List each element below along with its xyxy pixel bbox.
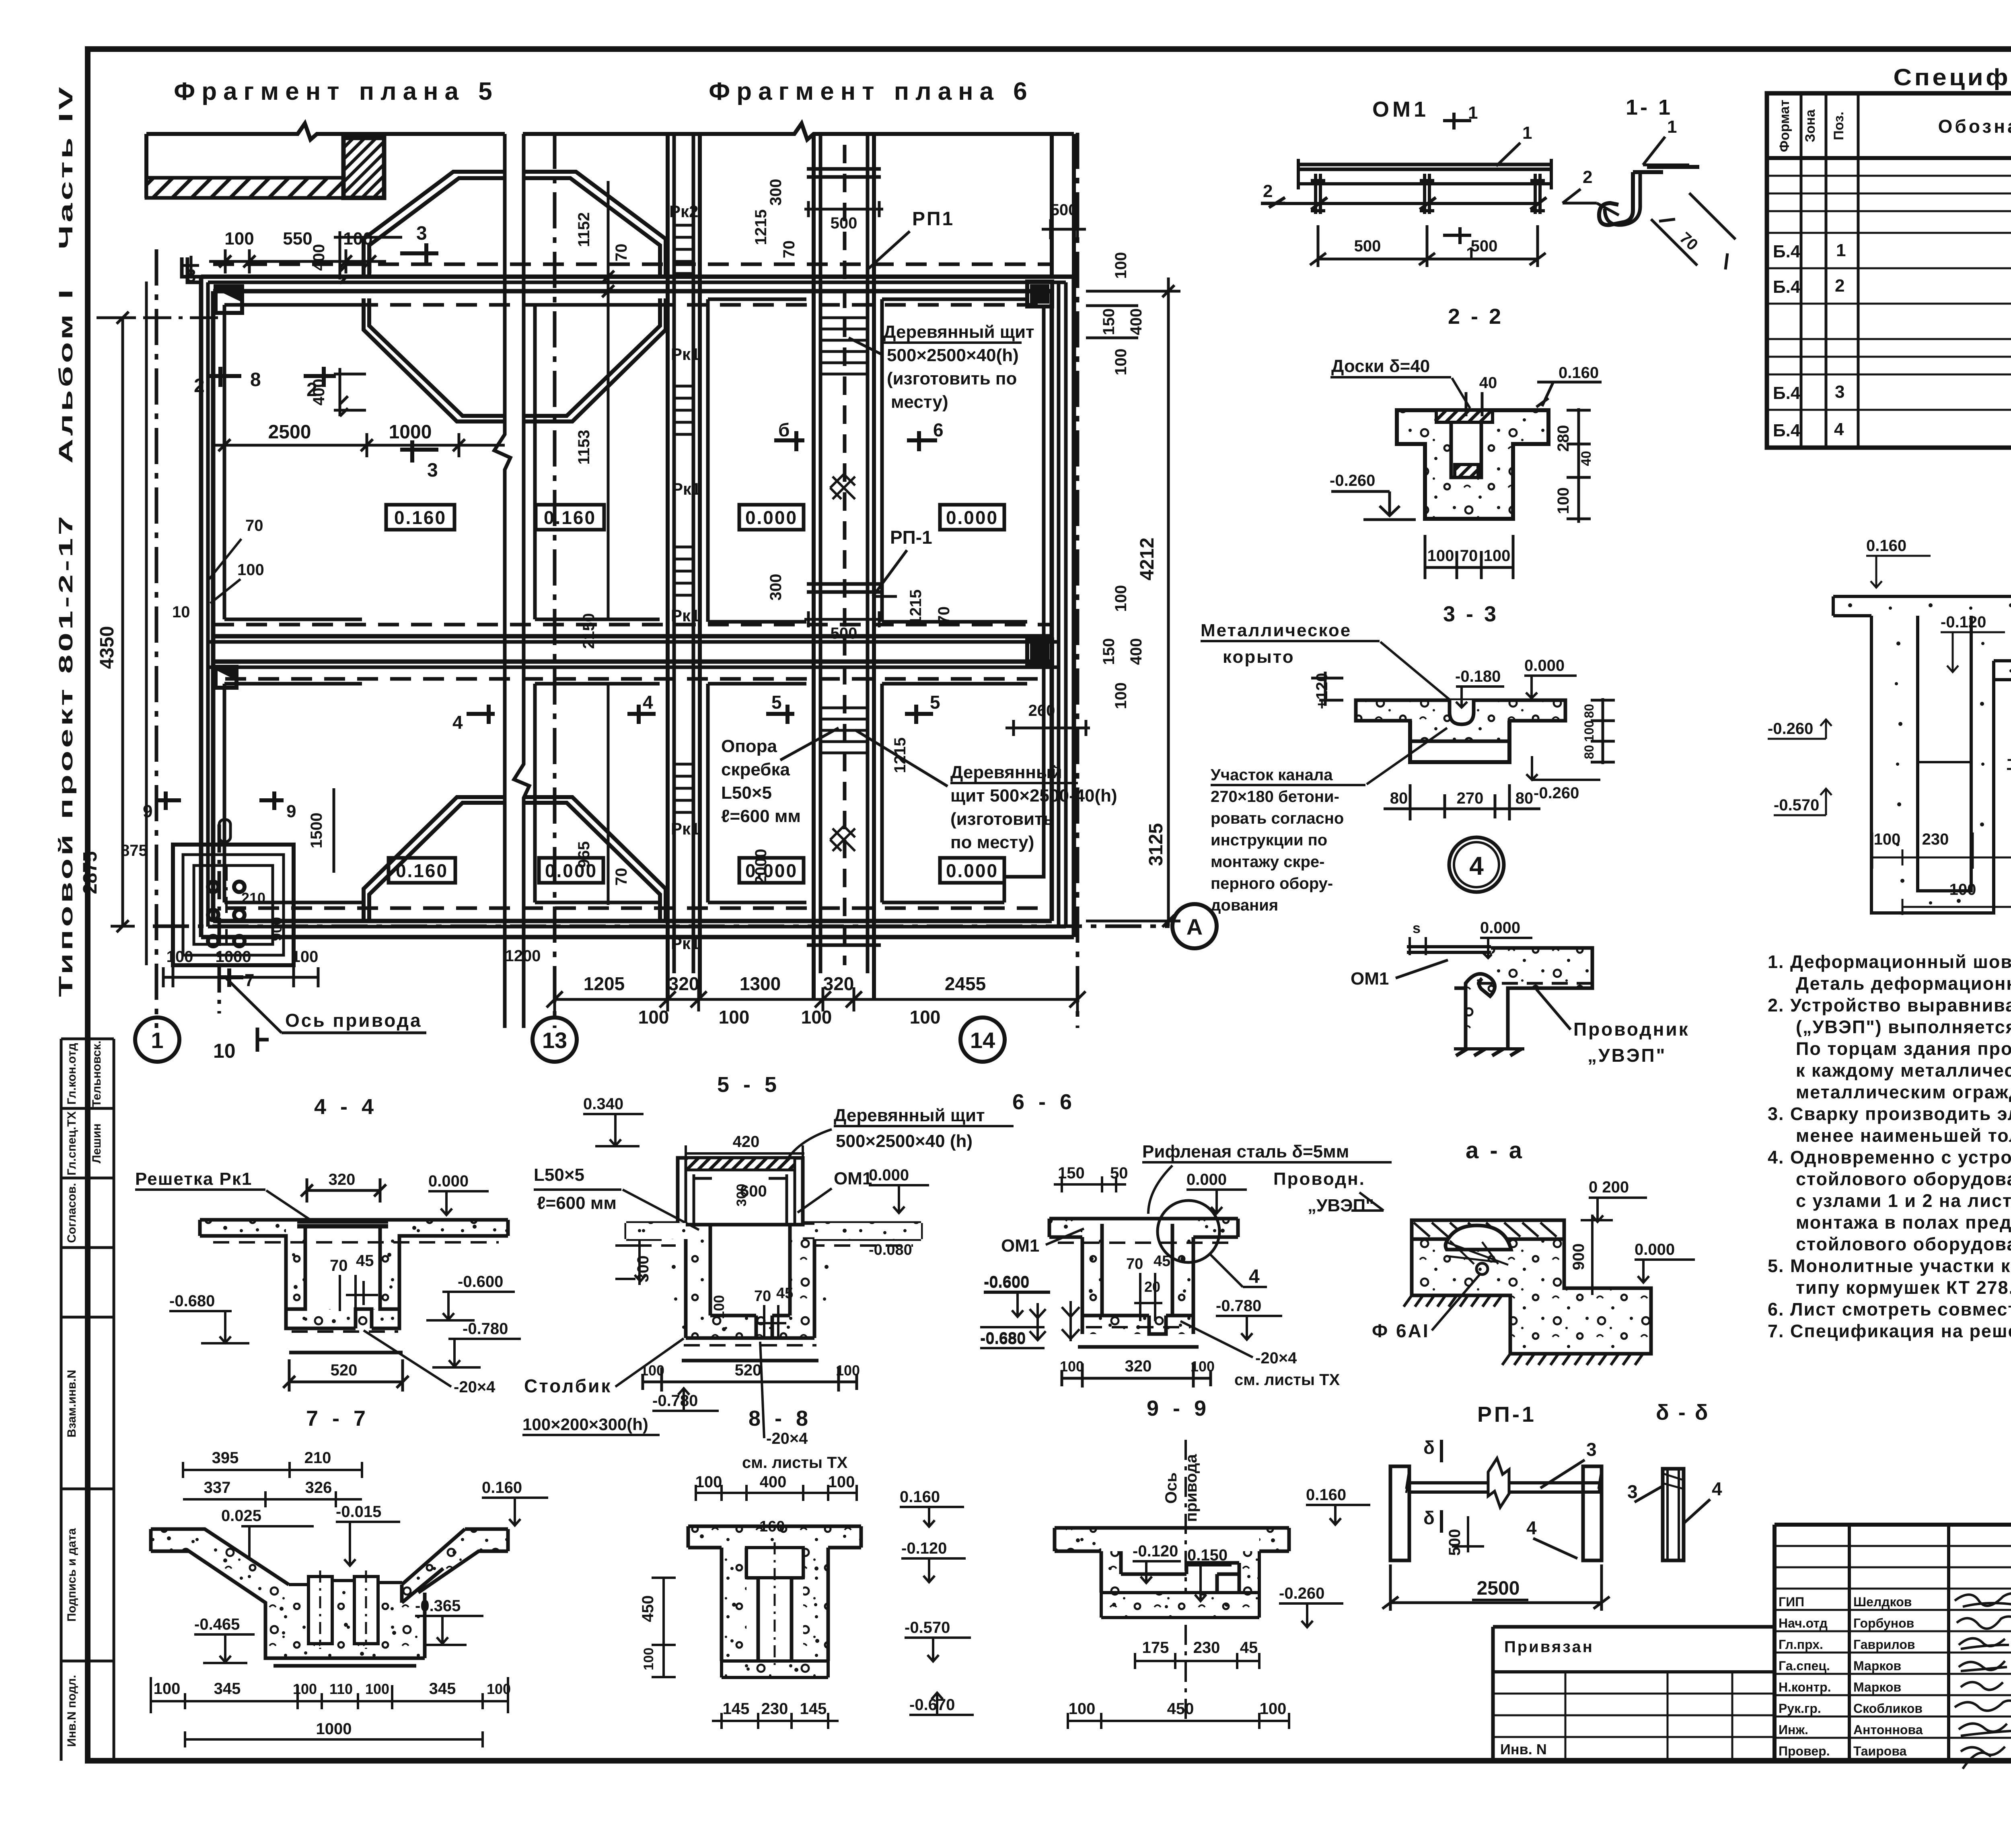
svg-text:Антоннова: Антоннова [1853,1723,1923,1737]
svg-text:2150: 2150 [580,613,598,649]
svg-text:3: 3 [1586,1439,1597,1460]
3-3 bottom dims 80 270 80 [1384,784,1540,820]
svg-text:100: 100 [836,1362,860,1379]
8-8 body [688,1526,861,1677]
svg-text:0 200: 0 200 [1589,1178,1629,1196]
svg-text:по месту): по месту) [950,833,1034,852]
svg-text:Гл.спец.ТХ: Гл.спец.ТХ [65,1111,78,1176]
svg-text:2: 2 [306,379,317,401]
svg-text:L50×5: L50×5 [534,1165,584,1185]
svg-text:160: 160 [759,1518,785,1535]
svg-text:Ось привода: Ось привода [285,1010,422,1031]
svg-text:4212: 4212 [1137,538,1158,581]
svg-text:Привязан: Привязан [1504,1638,1594,1656]
svg-text:б: б [778,419,790,440]
svg-text:Таирова: Таирова [1853,1744,1907,1758]
svg-text:100: 100 [801,1007,832,1028]
4-4 dim 520 [283,1359,409,1392]
svg-text:1153: 1153 [575,430,593,465]
4-4 concrete stipple [200,1220,508,1328]
svg-text:500: 500 [1446,1529,1464,1556]
8-8 top dims [695,1473,855,1491]
svg-text:1: 1 [1836,241,1846,260]
svg-text:Провер.: Провер. [1779,1744,1830,1758]
svg-text:-20×4: -20×4 [1255,1349,1297,1367]
axis A horizontal dash-dot [153,925,1170,928]
section flags 7 [219,968,243,987]
corner pier squares plan6 right [216,282,1052,688]
svg-text:70: 70 [1126,1256,1143,1272]
detail 1-1 hook [1599,167,1699,225]
svg-text:Инв.N подл.: Инв.N подл. [65,1675,78,1747]
svg-text:-0.260: -0.260 [1534,784,1579,802]
svg-text:0.000: 0.000 [946,860,998,881]
signature squiggles [1955,1593,2011,1769]
svg-text:7. Спецификация на решетки Рк1: 7. Спецификация на решетки Рк1 и Рж2 дан… [1768,1321,2011,1341]
7-7 concrete stipple [151,1529,508,1658]
svg-text:175: 175 [1142,1639,1169,1657]
svg-text:2: 2 [1835,276,1844,296]
left vertical of top strip [144,134,148,198]
500 dim top right plan6 [1042,219,1086,239]
drive axis dash-dot plan5 [218,824,221,1013]
RP-1 dim 500 [1452,1516,1484,1552]
svg-text:100: 100 [828,1473,855,1491]
svg-text:δ - δ: δ - δ [1656,1400,1709,1425]
svg-text:(изготовить по: (изготовить по [887,369,1017,389]
top boundary line plan5 [146,123,505,140]
svg-text:100: 100 [1060,1358,1084,1375]
svg-text:0.160: 0.160 [394,507,446,528]
svg-text:4: 4 [1469,851,1484,880]
svg-text:100: 100 [365,1681,389,1697]
wall jog left of plan5 corner [182,257,201,282]
svg-text:-0.780: -0.780 [463,1320,508,1338]
hatched upper wall band [146,178,343,198]
svg-text:8 - 8: 8 - 8 [748,1406,812,1431]
svg-text:2: 2 [1263,181,1273,201]
svg-text:100: 100 [641,1648,656,1671]
svg-text:Марков: Марков [1853,1659,1901,1673]
10-10 floor slab [1833,596,2011,913]
3-3 body [1356,700,1565,762]
svg-text:Марков: Марков [1853,1680,1901,1694]
svg-text:0.000: 0.000 [1635,1241,1675,1258]
feeder trough chutes at top wall plan6 [524,172,666,277]
svg-text:2500: 2500 [268,421,311,443]
svg-text:320: 320 [1125,1357,1152,1375]
svg-text:Доски δ=40: Доски δ=40 [1331,356,1430,376]
4-4 body [200,1220,508,1353]
svg-text:0.160: 0.160 [396,860,448,881]
canal label text [1211,766,1344,914]
svg-text:ОМ1: ОМ1 [1001,1236,1039,1256]
5-5 wooden box [678,1158,803,1225]
svg-text:Тельновск.: Тельновск. [90,1040,103,1107]
svg-text:100: 100 [292,948,319,966]
svg-text:100: 100 [1112,585,1130,612]
svg-text:Рк1: Рк1 [671,606,700,625]
svg-text:3. Сварку производить электрод: 3. Сварку производить электродами Э-42 Г… [1768,1104,2011,1124]
svg-text:1500: 1500 [308,813,325,849]
plan6 break line left edge [514,134,529,1028]
svg-text:-0.570: -0.570 [1774,796,1819,814]
svg-text:100: 100 [640,1362,664,1379]
svg-text:0.160: 0.160 [900,1488,940,1506]
svg-text:монтажу скре-: монтажу скре- [1211,853,1324,871]
svg-text:550: 550 [283,229,312,249]
svg-text:100: 100 [1874,830,1901,848]
svg-text:100: 100 [910,1007,941,1028]
svg-text:типу кормушек КТ 278.70.57: типу кормушек КТ 278.70.57 [1796,1277,2011,1298]
svg-text:900: 900 [1570,1244,1587,1270]
grid circle axis 1 [135,904,1217,1062]
svg-text:5: 5 [771,692,782,713]
10-10 bottom left dims [1874,830,2011,898]
svg-text:-0.680: -0.680 [169,1292,215,1310]
svg-text:ℓ=600 мм: ℓ=600 мм [721,806,801,826]
svg-text:110: 110 [329,1681,353,1697]
svg-text:металлическим ограждениям стой: металлическим ограждениям стойл и к труб… [1796,1082,2011,1102]
top left dimension row 100 550 100 [183,249,386,276]
svg-text:80: 80 [1390,789,1408,807]
svg-text:Инж.: Инж. [1779,1723,1808,1737]
left pit block plan5 bottom [173,820,294,965]
section flags 9 [157,791,284,810]
svg-text:Б.4: Б.4 [1773,277,1801,297]
svg-text:965: 965 [575,841,593,868]
svg-text:ОМ1: ОМ1 [1372,97,1429,121]
spec table grid [1767,93,2011,448]
svg-text:100: 100 [695,1473,722,1491]
6-6 concrete stipple [1049,1219,1238,1334]
svg-text:месту): месту) [891,392,948,412]
500 dim boxes on ladder [804,201,883,627]
svg-text:0.000: 0.000 [428,1172,469,1190]
svg-text:260: 260 [1028,702,1055,719]
svg-text:РП1: РП1 [912,208,954,230]
svg-text:520: 520 [331,1361,358,1379]
bottom wall band [225,907,1042,910]
svg-text:500×2500×40(h): 500×2500×40(h) [887,345,1019,365]
svg-text:70: 70 [1460,547,1478,565]
svg-text:-0.465: -0.465 [194,1616,240,1633]
svg-text:1300: 1300 [740,973,781,994]
svg-text:100: 100 [1484,547,1511,565]
svg-text:1. Деформационный шов в полу в: 1. Деформационный шов в полу выполнять с… [1768,952,2011,972]
svg-text:ОМ1: ОМ1 [834,1169,872,1188]
svg-text:-0.780: -0.780 [1216,1297,1261,1315]
svg-text:см. листы ТХ: см. листы ТХ [1234,1371,1340,1389]
7-7 top dims [204,1449,332,1525]
svg-text:320: 320 [668,973,699,994]
svg-text:230: 230 [1922,830,1949,848]
svg-text:Гл.кон.отд: Гл.кон.отд [65,1043,78,1104]
svg-text:0.000: 0.000 [745,507,798,528]
svg-text:РП-1: РП-1 [890,527,932,548]
9-9 body [1055,1528,1289,1618]
10-10 stipple dots [1848,603,2011,904]
plan5 left wall verticals [199,277,204,937]
inner room outline plan5 lower [224,684,362,902]
svg-text:300: 300 [767,574,785,601]
svg-text:0.000: 0.000 [1480,919,1520,937]
svg-text:Спецификация стали на одну мар: Спецификация стали на одну марку [1894,64,2011,90]
svg-text:0.340: 0.340 [583,1095,623,1113]
wooden shield label plan6 lower [950,763,1117,852]
svg-text:стойлового оборудования по лис: стойлового оборудования по листам ТХ и в… [1796,1169,2011,1189]
svg-text:326: 326 [305,1479,332,1496]
svg-text:0.160: 0.160 [1866,537,1906,555]
svg-text:Зона: Зона [1803,109,1818,142]
OM1 section marks 1 [1443,113,1471,244]
svg-text:Ф 6АΙ: Ф 6АΙ [1372,1320,1430,1341]
svg-text:Га.спец.: Га.спец. [1779,1659,1830,1673]
svg-text:4: 4 [1526,1517,1537,1538]
svg-text:1000: 1000 [216,948,251,966]
svg-text:Деревянный щит: Деревянный щит [834,1106,985,1125]
svg-text:80: 80 [1515,789,1534,807]
section flags 4 lower plan5 [467,705,656,724]
svg-text:7: 7 [245,970,254,990]
mid trough band walls [213,623,1052,627]
svg-text:щит 500×2500-40(h): щит 500×2500-40(h) [950,786,1117,806]
svg-text:45: 45 [1240,1639,1258,1657]
svg-text:6: 6 [933,419,944,440]
svg-text:1205: 1205 [584,973,625,994]
svg-text:По торцам здания проводники „У: По торцам здания проводники „УВЭП" соеди… [1796,1038,2011,1059]
circled node 4 [1449,837,1504,892]
svg-text:1: 1 [1667,117,1677,137]
svg-text:100×200×300(h): 100×200×300(h) [522,1415,648,1434]
svg-text:Б.4: Б.4 [1773,421,1801,440]
svg-text:150: 150 [1100,638,1118,665]
svg-text:400: 400 [1127,638,1145,665]
svg-text:с узлами 1 и 2 на листе АР-6.: с узлами 1 и 2 на листе АР-6. В случае н… [1796,1190,2011,1211]
svg-text:Нач.отд: Нач.отд [1779,1616,1828,1630]
svg-text:500: 500 [1354,237,1381,255]
svg-text:520: 520 [735,1361,762,1379]
svg-text:70: 70 [613,868,630,886]
svg-text:Деревянный: Деревянный [950,763,1062,782]
svg-text:Проводник: Проводник [1573,1019,1690,1040]
svg-text:0.160: 0.160 [544,507,596,528]
svg-text:δ: δ [1423,1437,1435,1458]
svg-text:100: 100 [167,948,193,966]
6-6 magnifier circle [1158,1200,1219,1262]
signature rows text [1779,1595,1923,1758]
svg-text:Скобликов: Скобликов [1853,1701,1923,1716]
svg-text:L50×5: L50×5 [721,783,772,803]
svg-text:-0.015: -0.015 [336,1503,381,1521]
svg-text:Б.4: Б.4 [1773,383,1801,403]
3-3 right dims [1591,698,1615,764]
svg-text:0.025: 0.025 [221,1507,261,1525]
svg-text:70: 70 [935,606,953,625]
RP-1 dim 2500 [1382,1564,1610,1611]
svg-text:„УВЭП": „УВЭП" [1587,1045,1666,1066]
svg-text:Деревянный щит: Деревянный щит [883,322,1034,342]
svg-text:Гаврилов: Гаврилов [1853,1637,1915,1652]
svg-text:1: 1 [151,1028,163,1053]
svg-text:Опора: Опора [721,736,777,756]
svg-text:-0.260: -0.260 [1330,472,1375,489]
svg-text:8: 8 [186,266,196,286]
8-8 concrete stipple [688,1526,861,1677]
svg-text:2000: 2000 [752,849,770,885]
svg-text:100: 100 [638,1007,669,1028]
section flags 6 in plan6 [774,431,937,451]
2-2 right dims [1567,408,1591,523]
feeder trough chute at bottom wall plan6 [524,797,666,921]
svg-text:420: 420 [733,1133,760,1151]
svg-text:4350: 4350 [97,626,118,669]
svg-text:270×180 бетони-: 270×180 бетони- [1211,788,1339,806]
svg-text:-0.120: -0.120 [1133,1542,1178,1560]
6-6 body [1049,1219,1238,1347]
svg-text:145: 145 [800,1700,827,1718]
svg-text:Рифленая сталь δ=5мм: Рифленая сталь δ=5мм [1142,1142,1349,1161]
svg-text:0.000: 0.000 [869,1166,909,1184]
svg-text:100: 100 [1260,1700,1287,1718]
axis 13 vertical dash-dot [553,133,557,1028]
svg-text:2875: 2875 [80,851,101,894]
svg-text:-0.670: -0.670 [2007,750,2011,768]
inner rooms lower mid/right [535,684,660,902]
svg-text:-20×4: -20×4 [766,1430,808,1447]
svg-text:150: 150 [1100,308,1118,335]
svg-text:395: 395 [212,1449,239,1467]
svg-text:Решетка Рк1: Решетка Рк1 [135,1169,252,1189]
svg-text:0.160: 0.160 [482,1479,522,1496]
svg-text:345: 345 [214,1680,241,1698]
5-5 dims bottom [643,1367,857,1392]
level mark boxes row1 [386,505,1004,883]
svg-text:100: 100 [1069,1700,1096,1718]
svg-text:1000: 1000 [389,421,432,443]
svg-text:5: 5 [930,692,940,713]
svg-text:4: 4 [1834,419,1844,439]
floor at -0.120 [1994,661,2011,785]
wall stubs above top wall plan6 right [1050,134,1054,277]
svg-text:100: 100 [1555,487,1572,514]
svg-text:70: 70 [330,1257,348,1274]
svg-text:0.160: 0.160 [1559,364,1599,382]
svg-text:210: 210 [241,890,265,906]
svg-text:450: 450 [1167,1700,1194,1718]
svg-text:-0.180: -0.180 [1455,668,1501,685]
right edge dims of plan6 [1086,278,1180,927]
svg-text:-0.120: -0.120 [901,1540,947,1557]
2-2 bottom dims 100 70 100 [1425,535,1513,579]
svg-text:450: 450 [639,1595,657,1622]
left deep pit [1871,616,1994,913]
svg-text:70: 70 [780,241,798,259]
feeder trough chute at bottom wall plan5 [364,797,505,921]
svg-text:-0.365: -0.365 [415,1597,461,1615]
svg-text:1215: 1215 [752,210,770,245]
svg-text:100: 100 [1427,547,1454,565]
svg-text:80: 80 [1582,704,1596,718]
svg-text:230: 230 [761,1700,788,1718]
axis 14 vertical dash-dot [1076,133,1080,1028]
svg-text:а - а: а - а [1466,1137,1524,1163]
wooden shield boards on ladder [820,318,868,753]
svg-text:337: 337 [204,1479,231,1496]
svg-text:s: s [1413,920,1421,936]
svg-text:0.000: 0.000 [1186,1171,1227,1188]
svg-text:210: 210 [304,1449,331,1467]
svg-text:Взам.инв.N: Взам.инв.N [65,1370,78,1437]
svg-text:3 - 3: 3 - 3 [1443,602,1499,626]
svg-text:Горбунов: Горбунов [1853,1616,1914,1630]
svg-text:1- 1: 1- 1 [1626,95,1673,119]
left dims 4350 2875 [97,282,225,965]
inner room outline plan6 upper right [882,299,1044,639]
svg-text:„УВЭП": „УВЭП" [1308,1196,1374,1215]
svg-text:ГИП: ГИП [1779,1595,1804,1609]
section flags 2 and 8 at left wall [209,367,336,387]
svg-text:1152: 1152 [575,212,593,247]
svg-text:-0.260: -0.260 [1279,1585,1324,1602]
svg-text:Шелдков: Шелдков [1853,1595,1912,1609]
svg-text:0.150: 0.150 [1187,1546,1228,1564]
svg-text:Обозначение: Обозначение [1938,116,2011,137]
svg-text:14: 14 [970,1028,995,1053]
svg-text:-0.780: -0.780 [652,1392,698,1410]
svg-text:100: 100 [711,1295,727,1319]
svg-text:100: 100 [1949,881,1976,898]
svg-text:50: 50 [1110,1164,1128,1182]
7-7 bottom dims [154,1680,511,1738]
svg-text:70: 70 [613,244,630,262]
svg-text:9: 9 [143,802,152,821]
svg-text:500: 500 [831,214,857,232]
svg-text:500: 500 [1051,201,1077,219]
svg-text:к каждому металлическому корыт: к каждому металлическому корыту транспор… [1796,1060,2011,1081]
svg-text:перного обору-: перного обору- [1211,875,1333,892]
svg-text:Н.контр.: Н.контр. [1779,1680,1831,1694]
Rk labels on grate column [669,202,701,953]
dims 2500 1000 [213,433,505,457]
svg-text:Типовой проект 801-2-17 Аль: Типовой проект 801-2-17 Альбом I Часть I… [56,84,77,997]
svg-text:3: 3 [416,223,427,244]
grate channel ladder Rk between plans [668,134,700,999]
svg-text:дования: дования [1211,896,1278,914]
svg-text:монтажа в полах предусмотреть: монтажа в полах предусмотреть гнезда под… [1796,1212,2011,1233]
svg-text:4: 4 [452,712,463,733]
svg-text:345: 345 [429,1680,456,1698]
svg-text:900: 900 [268,917,285,941]
svg-text:400: 400 [760,1473,787,1491]
svg-text:4 - 4: 4 - 4 [314,1095,378,1119]
svg-text:Согласов.: Согласов. [65,1183,78,1243]
1-1 dim 70 diagonal [1651,193,1735,269]
vertical dim line through rooms [596,181,620,905]
svg-text:320: 320 [329,1171,356,1188]
svg-text:-0.600: -0.600 [984,1273,1029,1291]
spec rows [1773,175,2011,442]
a-a ground hatch [1404,1239,1651,1365]
svg-text:10: 10 [213,1040,236,1062]
svg-text:стойлового оборудования.: стойлового оборудования. [1796,1234,2011,1254]
svg-text:Проводн.: Проводн. [1273,1169,1365,1189]
2-2 section body [1397,410,1548,519]
plan6 right wall verticals [1050,291,1054,921]
svg-text:А: А [1186,914,1203,939]
svg-text:менее наименьшей толщины свари: менее наименьшей толщины свариваемых эле… [1796,1125,2011,1146]
svg-text:40: 40 [1579,451,1594,466]
